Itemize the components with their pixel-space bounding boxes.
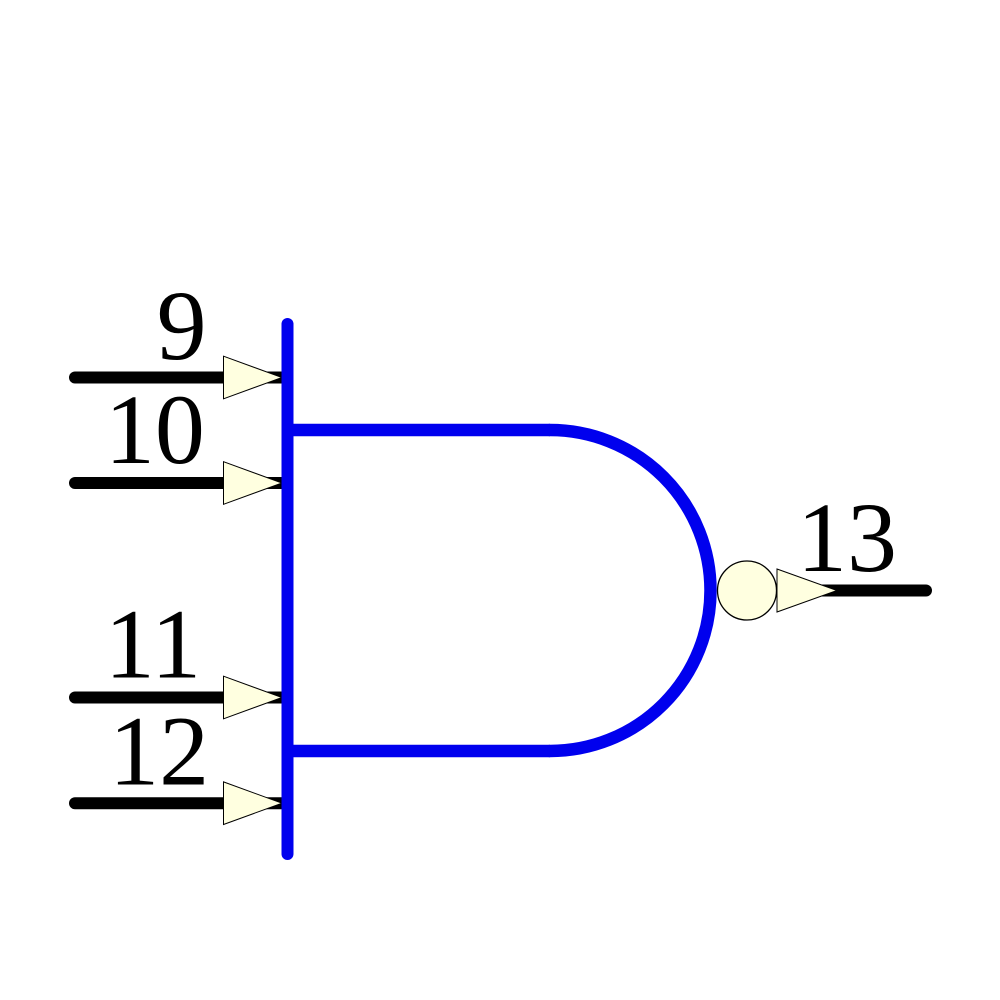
- wire pin 11: [75, 692, 287, 704]
- AND gate body: D arc: [550, 430, 711, 751]
- wire pin 10: [75, 477, 287, 489]
- AND gate body: input bar: [282, 324, 294, 854]
- svg-text:11: 11: [105, 589, 201, 700]
- output arrow pin 13: [777, 569, 837, 612]
- input arrow pin 9: [224, 356, 283, 399]
- wire pin 9: [75, 372, 287, 384]
- svg-text:13: 13: [797, 482, 897, 593]
- input arrow pin 10: [224, 462, 283, 505]
- svg-text:12: 12: [109, 695, 209, 806]
- input arrow pin 11: [224, 676, 283, 719]
- AND gate body: top edge: [288, 424, 551, 437]
- inversion bubble: [718, 561, 777, 620]
- input arrow pin 12: [224, 782, 283, 825]
- wire pin 12: [75, 797, 287, 809]
- AND gate body: bottom edge: [288, 745, 551, 758]
- svg-text:9: 9: [157, 270, 207, 381]
- svg-text:10: 10: [105, 374, 205, 485]
- wire pin 13 output: [782, 585, 926, 597]
